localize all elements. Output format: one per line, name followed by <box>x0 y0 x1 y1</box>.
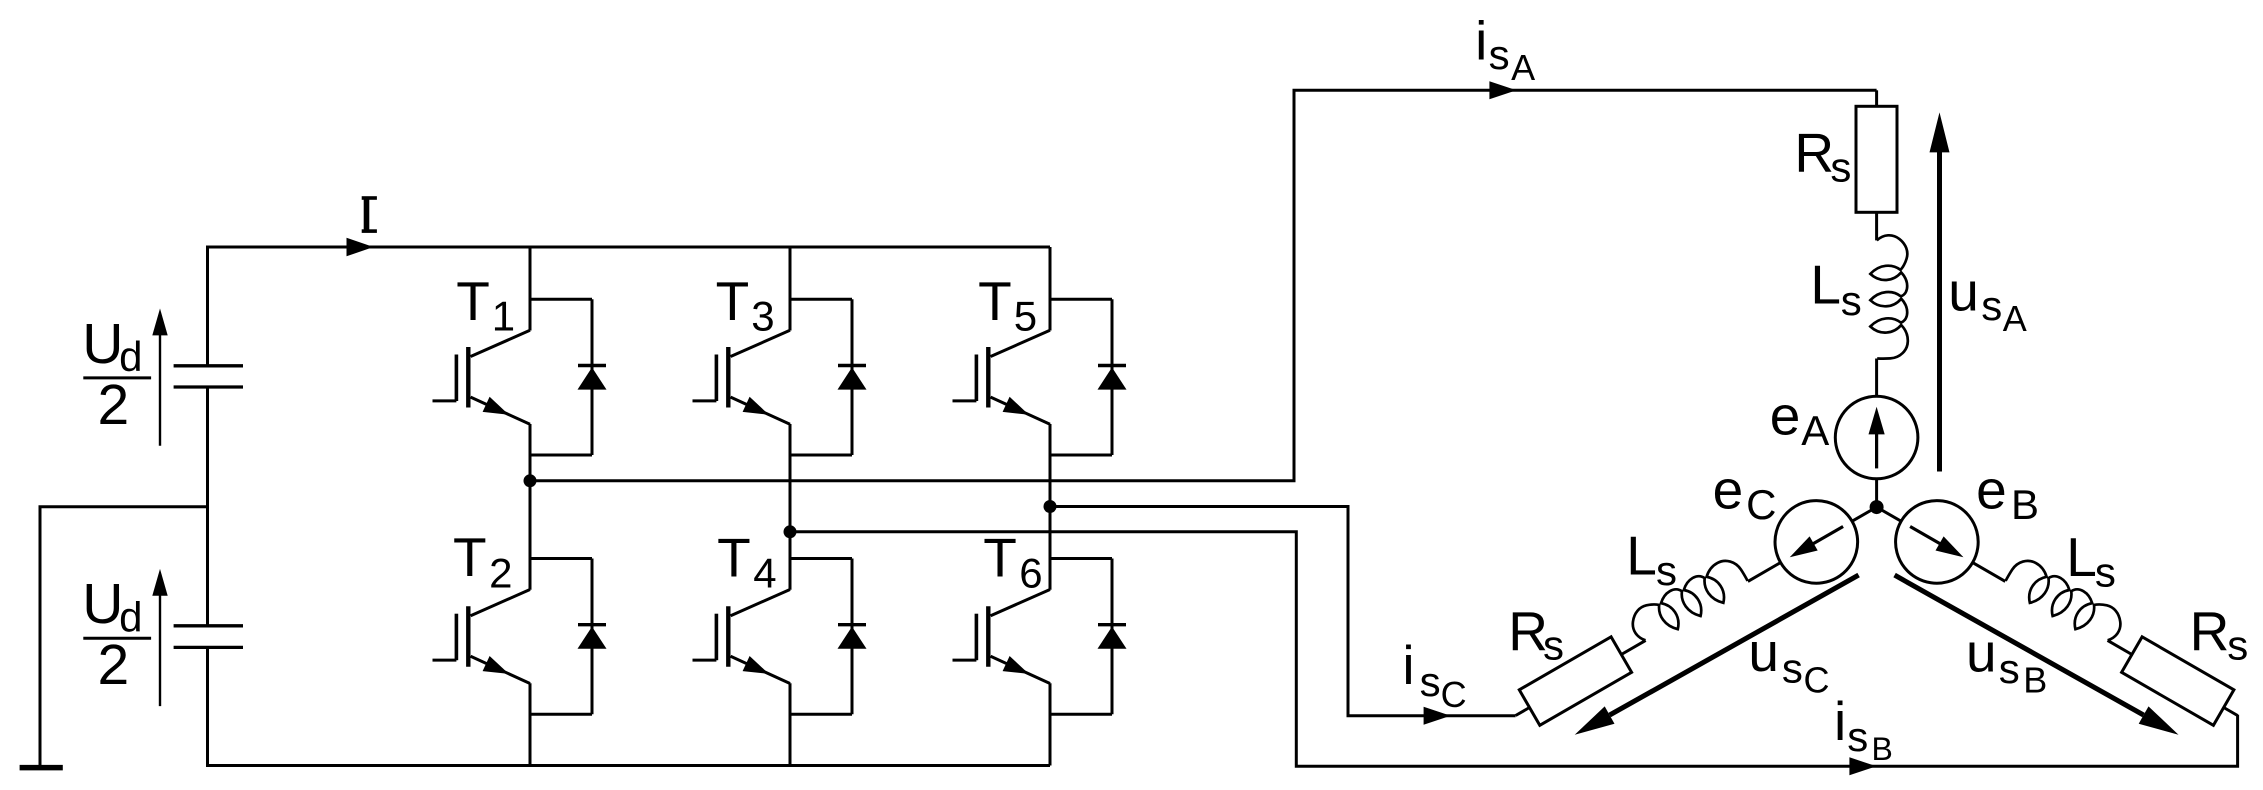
svg-text:2: 2 <box>98 633 130 697</box>
source eA (back-EMF, circle with arrow) <box>1835 396 1918 479</box>
arrow: current i_sA <box>1489 81 1516 99</box>
svg-text:e: e <box>1770 384 1801 446</box>
svg-text:s: s <box>1489 31 1510 78</box>
svg-text:e: e <box>1713 459 1744 521</box>
arrow: voltage u_sB <box>1895 575 2179 735</box>
svg-text:4: 4 <box>753 550 776 597</box>
wire: star point to source eC <box>1852 507 1877 521</box>
svg-text:C: C <box>1804 660 1830 701</box>
ground <box>20 765 63 771</box>
svg-text:L: L <box>1626 524 1657 586</box>
wire: source eB to inductor <box>1973 563 2006 582</box>
resistor Rs (phase B) <box>2122 637 2234 726</box>
svg-text:L: L <box>2066 526 2097 588</box>
capacitor C2 (lower DC-link cap) <box>174 626 243 648</box>
diode D4 (antiparallel to T4) <box>790 559 867 715</box>
svg-text:U: U <box>82 312 123 376</box>
node: leg 1 midpoint junction <box>524 474 537 487</box>
wire: top DC bus <box>206 246 1050 249</box>
svg-text:s: s <box>2227 622 2248 669</box>
node: leg 3 midpoint junction <box>1044 500 1057 513</box>
diode D1 (antiparallel to T1) <box>530 299 607 455</box>
svg-text:A: A <box>1801 407 1829 454</box>
diode D3 (antiparallel to T3) <box>790 299 867 455</box>
arrow: current i_sC <box>1424 707 1451 725</box>
wire: leg 5/6 vertical segments <box>1049 247 1052 766</box>
svg-text:C: C <box>1441 674 1467 715</box>
svg-text:A: A <box>2003 298 2027 339</box>
svg-text:s: s <box>1981 282 2002 329</box>
svg-text:B: B <box>2011 481 2039 528</box>
arrow: voltage u_sA <box>1930 112 1950 471</box>
svg-text:s: s <box>1420 658 1441 705</box>
transistor T2 (IGBT, lower) <box>433 590 531 684</box>
transistor T4 (IGBT, lower) <box>693 590 791 684</box>
wire: source eA to inductor <box>1875 359 1878 397</box>
transistor T3 (IGBT, upper) <box>693 330 791 424</box>
svg-text:L: L <box>1810 253 1841 315</box>
svg-text:B: B <box>1872 731 1893 767</box>
diode D5 (antiparallel to T5) <box>1050 299 1127 455</box>
svg-text:T: T <box>716 270 750 332</box>
wire: inductor to resistor <box>1621 640 1645 654</box>
wire: resistor to phase terminal <box>1875 90 1878 106</box>
transistor T1 (IGBT, upper) <box>433 330 531 424</box>
wire: inductor to resistor <box>1875 212 1878 240</box>
wire: DC midpoint to ground <box>40 507 208 766</box>
svg-text:s: s <box>1830 143 1851 190</box>
label Ud/2 (upper) with voltage arrow <box>82 309 167 446</box>
inductor Ls (phase C) <box>1626 554 1752 648</box>
wire: star point to source eA <box>1875 479 1878 508</box>
wire: phase B from leg 2 midpoint right, down and along the bottom to stator <box>790 532 2238 767</box>
wire: phase A from leg 1 midpoint up and right to stator <box>530 90 1877 481</box>
node: star point of the stator <box>1870 500 1884 514</box>
wire: resistor to phase terminal <box>1516 708 1530 716</box>
source eB (back-EMF, circle with arrow) <box>1880 485 1993 598</box>
arrow: voltage u_sC <box>1575 575 1859 735</box>
wire: star point to source eB <box>1877 507 1902 521</box>
arrow: current i_sB <box>1849 757 1876 775</box>
svg-text:B: B <box>2023 660 2047 701</box>
arrow: DC current I on top bus <box>347 238 374 257</box>
svg-text:6: 6 <box>1019 550 1042 597</box>
wire: bottom DC bus <box>206 764 1050 767</box>
svg-text:1: 1 <box>492 293 515 340</box>
diode D2 (antiparallel to T2) <box>530 559 607 715</box>
svg-text:C: C <box>1746 481 1776 528</box>
svg-text:s: s <box>1847 713 1868 760</box>
wire: source eC to inductor <box>1748 563 1781 582</box>
wire: resistor to phase terminal <box>2224 708 2238 716</box>
svg-text:s: s <box>1656 547 1677 594</box>
label I <box>362 198 377 231</box>
svg-text:u: u <box>1748 621 1779 683</box>
svg-text:T: T <box>717 527 751 589</box>
svg-text:R: R <box>2190 600 2230 662</box>
svg-text:T: T <box>978 270 1012 332</box>
resistor Rs (phase C) <box>1519 637 1631 726</box>
svg-text:s: s <box>1999 645 2020 692</box>
transistor T6 (IGBT, lower) <box>953 590 1051 684</box>
svg-text:s: s <box>2095 548 2116 595</box>
svg-text:R: R <box>1794 122 1834 184</box>
wire: leg 3/4 vertical segments <box>789 247 792 766</box>
source eC (back-EMF, circle with arrow) <box>1760 485 1873 598</box>
wire: left DC bus (vertical, interrupted by capacitors) <box>206 247 209 766</box>
svg-text:2: 2 <box>489 549 512 596</box>
svg-text:A: A <box>1511 47 1535 88</box>
transistor T5 (IGBT, upper) <box>953 330 1051 424</box>
svg-text:s: s <box>1841 277 1862 324</box>
svg-text:5: 5 <box>1014 293 1037 340</box>
svg-text:s: s <box>1782 644 1803 691</box>
svg-text:i: i <box>1475 10 1487 72</box>
svg-text:e: e <box>1976 459 2007 521</box>
inductor Ls (phase A) <box>1870 235 1908 358</box>
node: leg 2 midpoint junction <box>784 525 797 538</box>
resistor Rs (phase A) <box>1856 106 1897 212</box>
inductor Ls (phase B) <box>2002 554 2128 648</box>
svg-text:T: T <box>453 526 487 588</box>
svg-text:T: T <box>983 527 1017 589</box>
svg-text:U: U <box>82 572 123 636</box>
svg-text:2: 2 <box>98 373 130 437</box>
label Ud/2 (lower) with voltage arrow <box>82 569 167 706</box>
capacitor C1 (upper DC-link cap) <box>174 366 243 387</box>
svg-text:3: 3 <box>751 293 774 340</box>
wire: phase C from leg 3 midpoint right and down to stator <box>1050 507 1516 716</box>
svg-text:u: u <box>1966 622 1997 684</box>
wire: leg 1/2 vertical segments <box>529 247 532 766</box>
wire: inductor to resistor <box>2108 640 2132 654</box>
svg-text:i: i <box>1834 690 1846 752</box>
svg-text:i: i <box>1402 634 1414 696</box>
svg-text:u: u <box>1948 261 1979 323</box>
svg-text:s: s <box>1543 622 1564 669</box>
diode D6 (antiparallel to T6) <box>1050 559 1127 715</box>
svg-text:T: T <box>456 270 490 332</box>
